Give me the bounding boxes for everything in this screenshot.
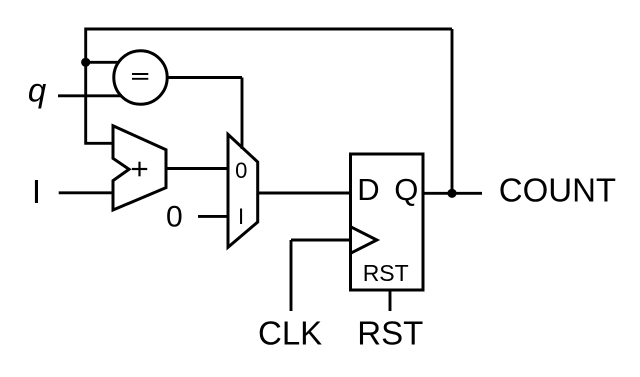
wire comparator output bbox=[167, 76, 242, 79]
svg-text:D: D bbox=[357, 172, 379, 207]
svg-text:I: I bbox=[238, 204, 244, 229]
wire comparator input A bbox=[86, 61, 120, 64]
comparator U1 circle bbox=[114, 51, 167, 104]
wire q input bbox=[58, 94, 122, 97]
adder U2 plus sign bbox=[132, 162, 147, 177]
flip-flop U4 clock triangle bbox=[351, 227, 377, 254]
wire adder output to mux input 0 bbox=[166, 167, 228, 170]
wire mux select vertical bbox=[241, 78, 244, 150]
comparator U1 equals sign bbox=[132, 74, 148, 79]
wire CLK vertical bbox=[290, 240, 293, 311]
mux U3 body bbox=[228, 134, 258, 247]
svg-text:0: 0 bbox=[166, 201, 183, 234]
wire RST stub bbox=[389, 290, 392, 311]
svg-text:CLK: CLK bbox=[258, 315, 322, 352]
svg-text:RST: RST bbox=[363, 260, 409, 286]
flip-flop U4 body bbox=[351, 154, 424, 290]
wire feedback right vertical bbox=[451, 29, 454, 193]
svg-text:Q: Q bbox=[394, 172, 418, 207]
svg-text:RST: RST bbox=[357, 315, 423, 352]
wire Q output to COUNT bbox=[423, 192, 482, 195]
node junction Q feedback bbox=[447, 189, 456, 198]
adder U2 body bbox=[113, 126, 166, 210]
wire feedback left vertical bbox=[84, 28, 87, 144]
wire feedback top horizontal bbox=[86, 28, 452, 31]
wire constant 0 to mux input 1 bbox=[198, 215, 228, 218]
wire adder input A horizontal bbox=[84, 142, 113, 145]
svg-text:0: 0 bbox=[235, 158, 247, 183]
wire CLK horizontal bbox=[291, 239, 351, 242]
wire I input to adder bbox=[59, 191, 113, 194]
node junction feedback to comparator bbox=[81, 58, 90, 67]
svg-text:q: q bbox=[28, 72, 47, 109]
wire mux output to D bbox=[258, 192, 351, 195]
svg-text:COUNT: COUNT bbox=[499, 172, 616, 209]
svg-text:I: I bbox=[32, 173, 41, 210]
